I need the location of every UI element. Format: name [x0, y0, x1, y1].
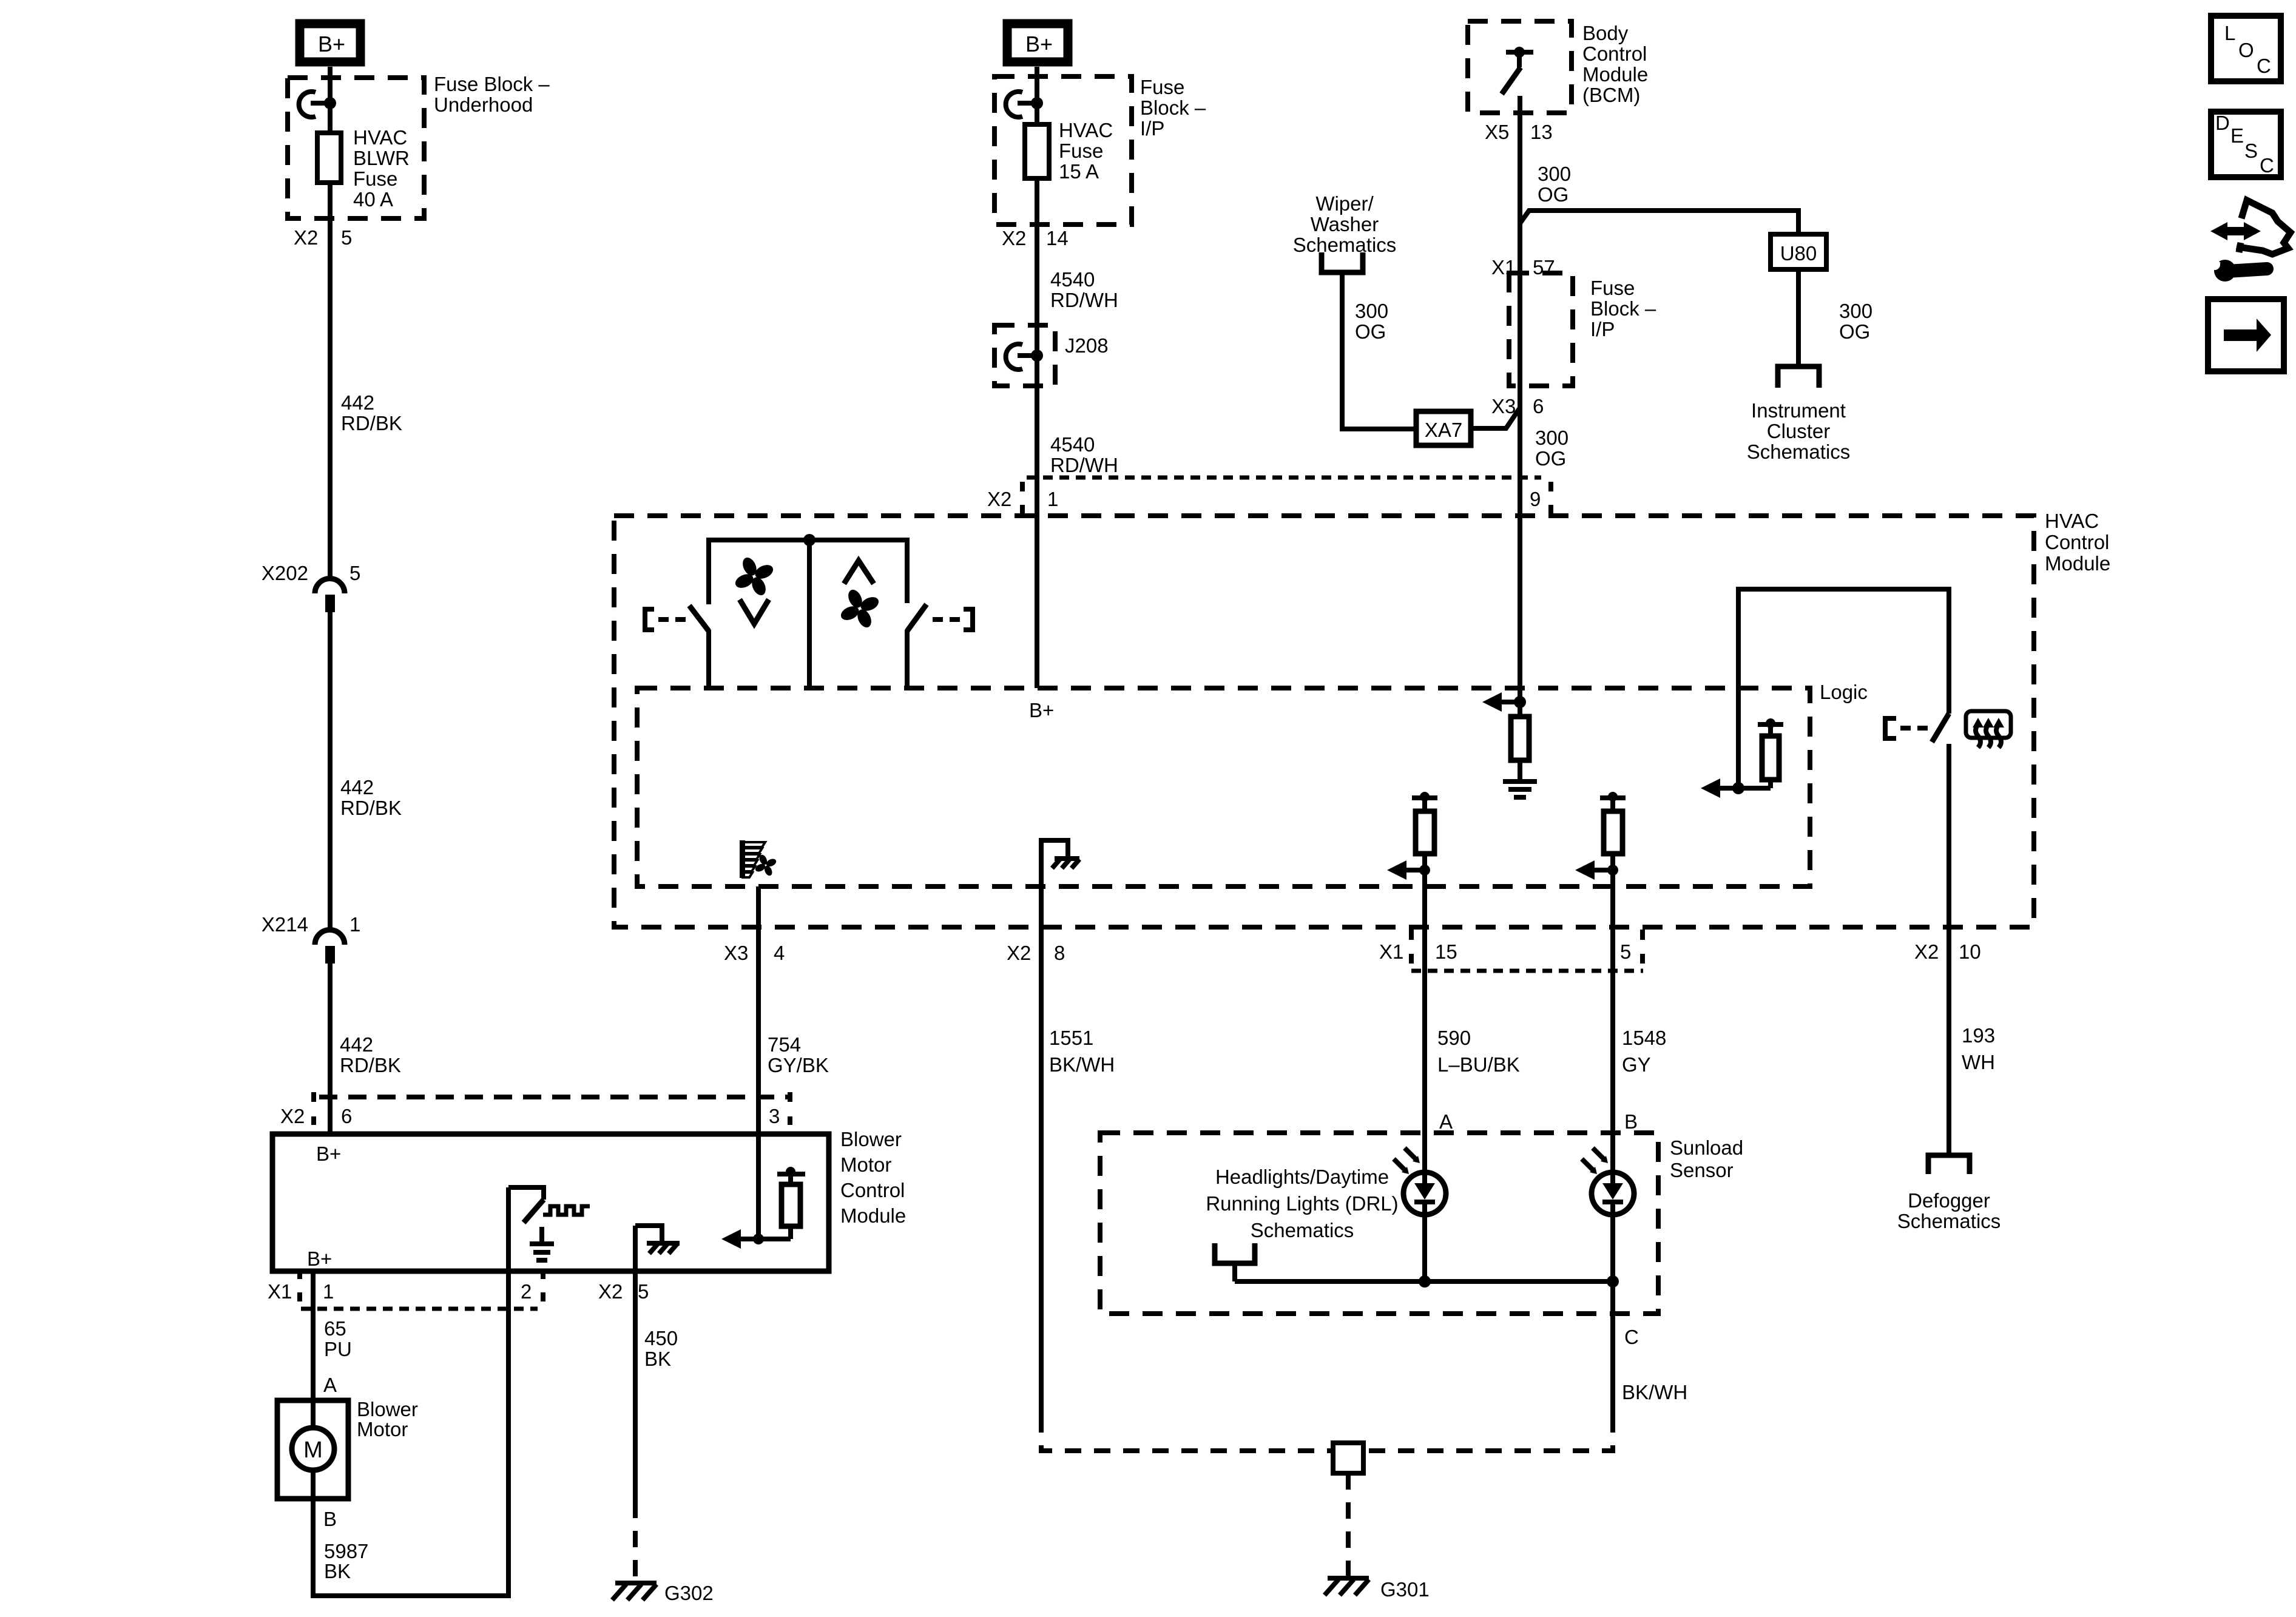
svg-text:X2: X2 [1002, 227, 1026, 249]
svg-text:Module: Module [2045, 552, 2110, 575]
svg-text:B+: B+ [307, 1247, 332, 1270]
wire motor B loop to pin 2 [313, 1271, 508, 1596]
ground G302 [612, 1582, 714, 1604]
svg-text:10: 10 [1959, 940, 1981, 963]
svg-text:G302: G302 [664, 1582, 714, 1604]
junction node [803, 534, 815, 546]
svg-text:OG: OG [1535, 447, 1566, 470]
svg-text:Fuse Block –: Fuse Block – [434, 73, 550, 95]
svg-text:X202: X202 [262, 562, 308, 584]
svg-text:E: E [2230, 124, 2244, 147]
HVAC control module outer dashed box [614, 516, 2034, 927]
svg-text:1: 1 [1047, 488, 1058, 510]
svg-text:450: 450 [644, 1327, 678, 1349]
svg-text:M: M [303, 1437, 323, 1463]
svg-text:RD/BK: RD/BK [340, 1054, 401, 1076]
DRL off-page bracket [1215, 1243, 1255, 1263]
svg-text:B: B [1624, 1110, 1638, 1133]
svg-text:65: 65 [324, 1317, 346, 1340]
svg-text:1: 1 [323, 1280, 334, 1303]
svg-text:RD/WH: RD/WH [1050, 454, 1118, 476]
svg-text:Sunload: Sunload [1670, 1136, 1743, 1159]
fuse block underhood dashed box [288, 78, 424, 218]
svg-text:Module: Module [1582, 63, 1648, 86]
wires PD to common [1422, 1215, 1427, 1281]
switch control bracket [1885, 718, 1896, 738]
svg-text:5: 5 [1620, 940, 1631, 963]
svg-text:4540: 4540 [1050, 268, 1095, 291]
svg-text:Logic: Logic [1820, 681, 1868, 703]
svg-text:300: 300 [1839, 300, 1872, 322]
svg-text:BK/WH: BK/WH [1049, 1053, 1115, 1076]
svg-text:RD/BK: RD/BK [340, 797, 402, 819]
svg-text:Fuse: Fuse [353, 167, 397, 190]
svg-text:B: B [323, 1508, 337, 1530]
svg-text:Block –: Block – [1590, 297, 1656, 320]
next-page arrow icon [2208, 299, 2284, 371]
svg-text:1: 1 [349, 913, 360, 936]
B+ power box (middle) [1007, 24, 1068, 62]
svg-text:Fuse: Fuse [1590, 277, 1635, 299]
svg-text:Washer: Washer [1311, 213, 1379, 235]
instrument cluster off-page bracket [1778, 366, 1819, 388]
svg-text:Instrument: Instrument [1751, 399, 1846, 422]
svg-text:Block –: Block – [1140, 96, 1206, 119]
svg-text:I/P: I/P [1590, 318, 1615, 340]
svg-text:Schematics: Schematics [1251, 1219, 1354, 1241]
svg-text:X1: X1 [1379, 940, 1403, 963]
svg-text:OG: OG [1839, 320, 1870, 343]
pin 9 sense resistor to ground [1482, 478, 1537, 797]
blower motor [277, 1398, 418, 1499]
fuse HVAC BLWR 40A [317, 133, 341, 183]
wire fuse to X202 [328, 183, 333, 579]
svg-text:Cluster: Cluster [1767, 420, 1831, 442]
svg-text:Control: Control [840, 1179, 905, 1201]
dashed C lead [1366, 1416, 1613, 1451]
svg-text:I/P: I/P [1140, 117, 1164, 140]
svg-text:OG: OG [1538, 183, 1568, 206]
svg-text:13: 13 [1530, 121, 1553, 143]
fuse clip hook [1006, 92, 1022, 117]
wire wiper to XA7 [1342, 272, 1416, 429]
svg-text:Motor: Motor [357, 1418, 408, 1440]
body control module dashed box [1468, 21, 1572, 113]
pin1 wire to motor [311, 1271, 316, 1428]
svg-text:C: C [1624, 1326, 1639, 1348]
sunload resistor A (pin X1 15) [1387, 792, 1437, 880]
fuse clip hook [299, 92, 316, 117]
svg-text:Schematics: Schematics [1897, 1210, 2001, 1232]
switch fan decrease [645, 606, 709, 688]
internal ground loop (pin X2 8) [1041, 840, 1079, 884]
connector line X2 6/3 [319, 1095, 788, 1099]
pin X3 4 wire [756, 886, 761, 1134]
defogger switch wire [1738, 589, 1949, 788]
svg-text:X2: X2 [598, 1280, 623, 1303]
svg-text:L: L [2224, 22, 2235, 44]
wire center branch [807, 540, 812, 688]
svg-text:BLWR: BLWR [353, 147, 410, 169]
svg-text:Schematics: Schematics [1747, 441, 1851, 463]
svg-text:GY: GY [1622, 1053, 1651, 1076]
fuse block IP pass-through dashed box [1509, 273, 1573, 386]
svg-text:2: 2 [521, 1280, 532, 1303]
chevron down [740, 599, 769, 624]
svg-text:1548: 1548 [1622, 1027, 1666, 1049]
fuse HVAC 15A [1025, 124, 1049, 178]
svg-text:RD/BK: RD/BK [341, 412, 402, 434]
svg-text:HVAC: HVAC [353, 126, 407, 149]
defogger switch blade [1932, 714, 1949, 742]
svg-text:X5: X5 [1485, 121, 1509, 143]
svg-text:X2: X2 [294, 226, 318, 249]
svg-text:Fuse: Fuse [1059, 140, 1103, 162]
svg-text:RD/WH: RD/WH [1050, 289, 1118, 311]
svg-text:40 A: 40 A [353, 188, 393, 211]
internal resistor with supply bar [721, 1167, 805, 1249]
logic pull-up resistor (defogger request) [1701, 718, 1783, 798]
svg-text:X214: X214 [262, 913, 308, 936]
B+ power box (left) [300, 24, 360, 62]
svg-text:D: D [2215, 112, 2230, 134]
svg-text:HVAC: HVAC [1059, 119, 1113, 141]
svg-text:O: O [2238, 39, 2254, 61]
wire BCM down [1518, 96, 1522, 478]
svg-text:193: 193 [1962, 1024, 1995, 1047]
svg-text:X3: X3 [1491, 395, 1516, 417]
chevron up [844, 561, 874, 584]
defroster heater icon [1966, 711, 2011, 748]
svg-text:X3: X3 [724, 942, 748, 964]
svg-text:B+: B+ [318, 32, 345, 56]
wire 450 BK from pin X2 5 [633, 1271, 638, 1502]
DESC icon [2211, 112, 2281, 177]
svg-text:Headlights/Daytime: Headlights/Daytime [1215, 1166, 1389, 1188]
wire B+ to fuse (442 circuit feed) [328, 67, 333, 133]
svg-text:GY/BK: GY/BK [768, 1054, 829, 1076]
svg-text:U80: U80 [1780, 242, 1817, 265]
blower motor control module box [272, 1134, 829, 1271]
svg-text:5: 5 [638, 1280, 649, 1303]
connector X214 [262, 913, 360, 964]
svg-text:Underhood: Underhood [434, 93, 533, 116]
photodiode A [1394, 1148, 1446, 1215]
svg-text:X2: X2 [1007, 942, 1031, 964]
internal signal ground [530, 1227, 554, 1260]
wire to fuse [1035, 67, 1039, 124]
svg-text:Fuse: Fuse [1140, 76, 1184, 98]
ground G301 [1325, 1578, 1430, 1601]
fan icon high [839, 587, 880, 629]
svg-text:C: C [2260, 154, 2274, 177]
svg-text:HVAC: HVAC [2045, 510, 2099, 532]
wire X214 to blower module [328, 964, 333, 1134]
wire C down [1610, 1281, 1615, 1416]
wire B down [1610, 870, 1615, 1172]
diagnostic icon (arrow, outline, wrench) [2209, 200, 2291, 282]
svg-text:6: 6 [341, 1105, 352, 1127]
svg-text:Body: Body [1582, 22, 1629, 44]
svg-text:Schematics: Schematics [1293, 234, 1397, 256]
PWM switch inside module [508, 1187, 590, 1271]
svg-text:A: A [1439, 1110, 1453, 1133]
svg-text:PU: PU [324, 1338, 352, 1360]
dashed lead to G301 [1346, 1473, 1351, 1576]
svg-text:Running Lights (DRL): Running Lights (DRL) [1206, 1192, 1398, 1215]
svg-text:WH: WH [1962, 1051, 1995, 1073]
svg-text:5: 5 [349, 562, 360, 584]
wire X202 to X214 [328, 612, 333, 930]
wire A down [1422, 870, 1427, 1172]
svg-text:1551: 1551 [1049, 1027, 1093, 1049]
LOC icon [2211, 16, 2281, 81]
fan icon low [733, 555, 775, 597]
svg-text:X2: X2 [987, 488, 1011, 510]
internal chassis ground (pin5) [635, 1226, 680, 1271]
svg-text:3: 3 [769, 1105, 780, 1127]
svg-text:X2: X2 [1914, 940, 1939, 963]
svg-text:590: 590 [1437, 1027, 1471, 1049]
fusible link U80 [1771, 234, 1826, 269]
svg-text:L–BU/BK: L–BU/BK [1437, 1053, 1520, 1076]
dashed 1551 lead [1041, 1416, 1331, 1451]
svg-text:Blower: Blower [357, 1398, 418, 1420]
svg-text:442: 442 [340, 776, 374, 798]
svg-text:442: 442 [340, 1033, 373, 1056]
photodiode B [1582, 1148, 1634, 1215]
BCM internal switch [1502, 47, 1533, 94]
svg-text:300: 300 [1538, 163, 1571, 185]
splice J208 [994, 325, 1109, 386]
connector line X2 1/9 [1027, 476, 1541, 480]
svg-text:XA7: XA7 [1425, 419, 1462, 441]
sunload resistor B (pin 5) [1575, 792, 1626, 880]
svg-text:BK/WH: BK/WH [1622, 1381, 1687, 1403]
svg-text:5: 5 [341, 226, 352, 249]
svg-text:X1: X1 [268, 1280, 292, 1303]
wire XA7 to main [1471, 408, 1520, 428]
fuse block IP dashed box [994, 76, 1132, 224]
logic inner dashed box [637, 688, 1810, 886]
svg-text:15: 15 [1435, 940, 1457, 963]
svg-text:Control: Control [1582, 42, 1647, 65]
svg-text:X2: X2 [280, 1105, 305, 1127]
wire U80 down [1796, 269, 1801, 366]
pin 3 wire into module [756, 1134, 761, 1239]
fan speed circuit top wire [709, 540, 907, 604]
svg-text:Sensor: Sensor [1670, 1159, 1734, 1181]
branch to U80 [1520, 211, 1798, 234]
svg-text:A: A [323, 1374, 337, 1396]
svg-text:BK: BK [324, 1560, 351, 1582]
svg-text:S: S [2244, 140, 2258, 162]
svg-text:B+: B+ [1029, 699, 1054, 721]
svg-text:9: 9 [1530, 488, 1541, 510]
connector X202 [262, 562, 360, 612]
dashed lead to G302 [633, 1502, 638, 1581]
svg-text:J208: J208 [1065, 334, 1109, 357]
svg-text:442: 442 [341, 391, 374, 414]
svg-text:Module: Module [840, 1204, 906, 1227]
svg-text:(BCM): (BCM) [1582, 84, 1640, 106]
defogger off-page bracket [1928, 1155, 1970, 1174]
svg-text:OG: OG [1355, 320, 1386, 343]
svg-text:Control: Control [2045, 531, 2109, 553]
common wire [1235, 1279, 1613, 1284]
svg-text:Motor: Motor [840, 1153, 891, 1176]
svg-text:C: C [2257, 55, 2271, 77]
wire fuse down [1035, 178, 1039, 688]
blower speed indicator icon [740, 840, 777, 878]
svg-text:4: 4 [774, 942, 785, 964]
svg-text:Blower: Blower [840, 1128, 902, 1150]
switch fan increase [907, 604, 973, 688]
svg-text:B+: B+ [1025, 32, 1053, 56]
svg-text:Defogger: Defogger [1908, 1189, 1990, 1212]
connector line X1 15/5 [1411, 969, 1643, 973]
connector XA7 [1416, 411, 1471, 445]
svg-text:BK: BK [644, 1348, 671, 1370]
splice block square [1333, 1443, 1363, 1473]
svg-text:300: 300 [1355, 300, 1388, 322]
svg-text:6: 6 [1533, 395, 1544, 417]
svg-text:4540: 4540 [1050, 433, 1095, 456]
svg-text:B+: B+ [316, 1143, 341, 1165]
svg-text:300: 300 [1535, 427, 1568, 449]
connector line X1 1/2 [301, 1307, 538, 1311]
svg-text:8: 8 [1054, 942, 1065, 964]
svg-text:G301: G301 [1380, 1578, 1430, 1601]
pin X2 8 wire [1039, 884, 1044, 1416]
svg-text:14: 14 [1046, 227, 1069, 249]
svg-text:754: 754 [768, 1033, 801, 1056]
svg-text:5987: 5987 [324, 1540, 368, 1562]
svg-text:15 A: 15 A [1059, 160, 1099, 183]
svg-text:Wiper/: Wiper/ [1315, 192, 1374, 215]
wiper off-page bracket [1322, 252, 1363, 272]
